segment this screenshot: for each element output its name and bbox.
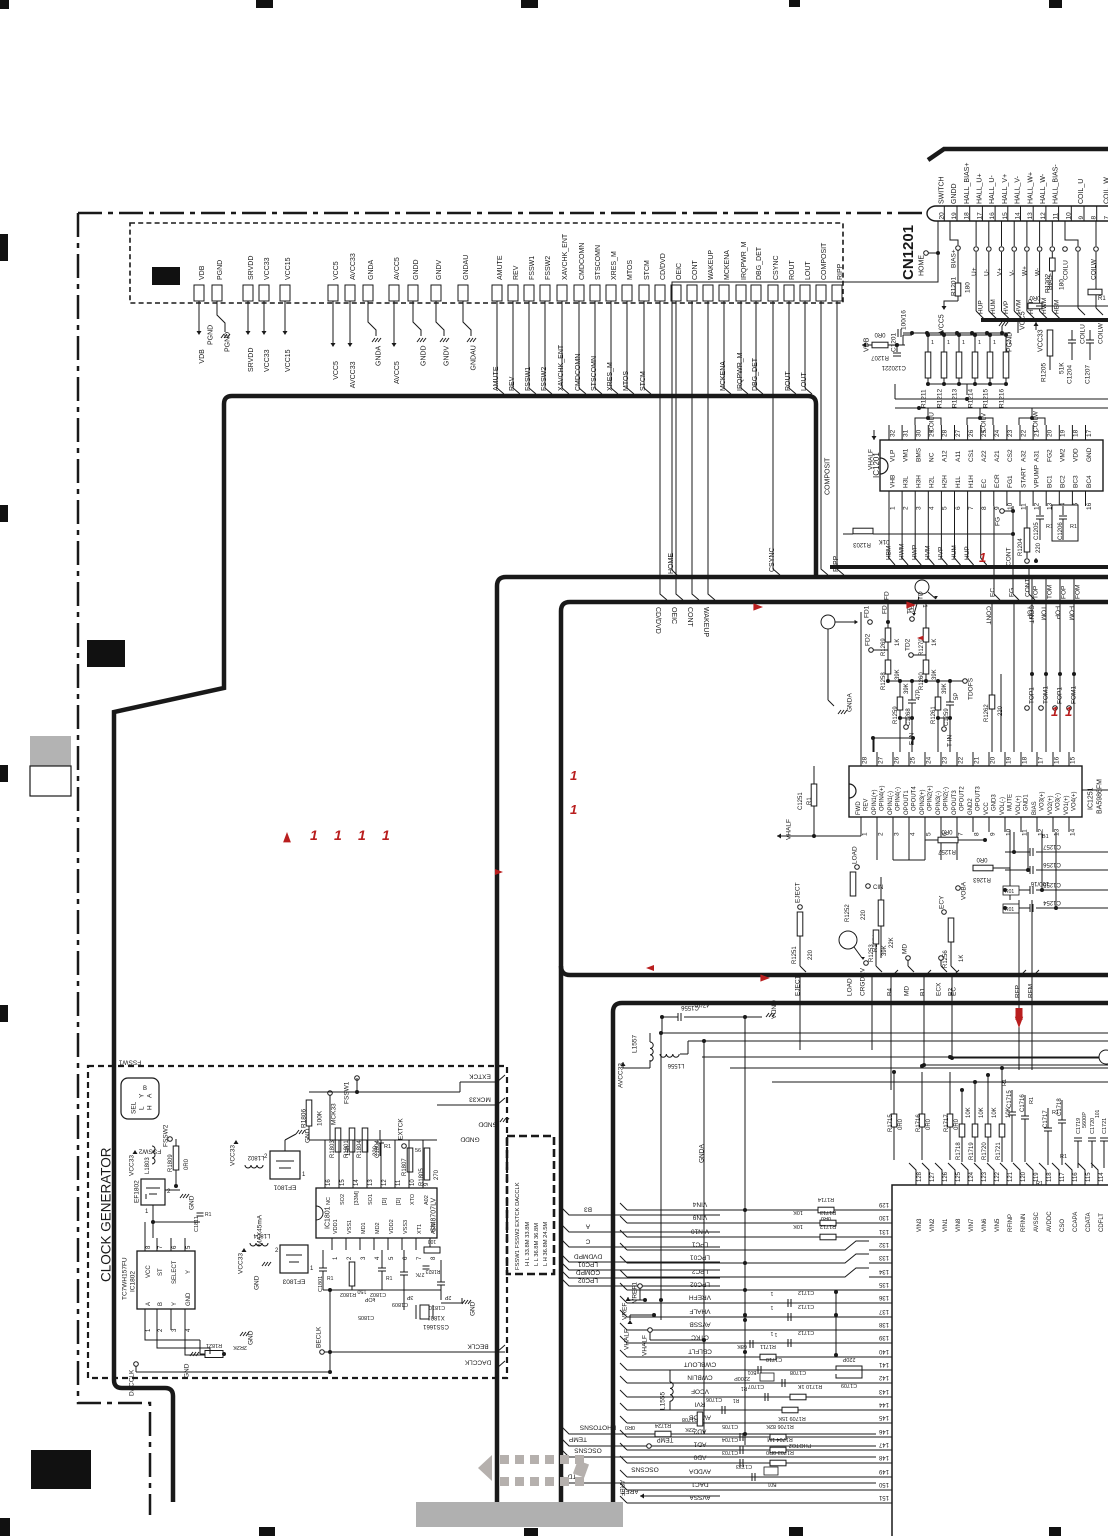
svg-text:VHB: VHB: [889, 475, 896, 488]
svg-text:SO1: SO1: [368, 1194, 374, 1205]
svg-text:R1216: R1216: [998, 388, 1005, 408]
svg-text:117: 117: [1060, 1172, 1066, 1182]
wire net A: [561, 1224, 613, 1232]
IC1251 pin 1: [860, 817, 862, 832]
svg-text:11: 11: [1021, 829, 1028, 836]
svg-text:R1717: R1717: [944, 1114, 950, 1132]
battery EF1803: [280, 1245, 308, 1273]
svg-text:R1706 82K: R1706 82K: [766, 1423, 794, 1429]
svg-text:C1206: C1206: [1058, 522, 1064, 540]
svg-text:1: 1: [931, 340, 934, 346]
svg-text:30: 30: [916, 429, 923, 437]
svg-text:18: 18: [1021, 756, 1028, 764]
resistor R1202 180: [1051, 221, 1053, 246]
svg-text:1: 1: [947, 340, 950, 346]
resistor 100: [424, 1247, 440, 1253]
op-amp IC1251 BA5986FM: [849, 766, 1082, 817]
IC1251 pin 17: [1036, 752, 1038, 766]
IC1701 pin 126: [935, 1163, 942, 1185]
svg-text:GND3: GND3: [992, 794, 998, 811]
op-amp IC1701 servo DSP: [892, 1185, 1108, 1536]
svg-text:VCC33: VCC33: [229, 1145, 236, 1166]
svg-text:R1203: R1203: [853, 541, 871, 547]
dashed interface box: [130, 223, 843, 303]
svg-text:9: 9: [1078, 216, 1085, 220]
svg-text:GNDD: GNDD: [413, 259, 420, 280]
resistor R1719 10K: [972, 1124, 978, 1137]
svg-text:0R0: 0R0: [941, 828, 953, 834]
svg-text:VM1: VM1: [902, 448, 909, 462]
svg-text:DACCLK: DACCLK: [128, 1369, 135, 1396]
wires from clock to right: [459, 1082, 461, 1092]
svg-text:HUM: HUM: [990, 299, 997, 314]
svg-text:5600P: 5600P: [1082, 1112, 1088, 1128]
svg-text:CSO: CSO: [1060, 1219, 1066, 1232]
wire heavy bus D outline: [613, 1003, 1108, 1502]
IC1701 pin 121: [1000, 1163, 1007, 1185]
svg-text:EF1803: EF1803: [282, 1278, 305, 1285]
svg-text:220: 220: [808, 949, 814, 960]
svg-text:16: 16: [989, 212, 996, 220]
svg-text:4: 4: [909, 832, 916, 836]
IC1201 pin 18 VDD: [1071, 425, 1073, 440]
svg-text:14: 14: [1069, 828, 1076, 836]
svg-text:1: 1: [861, 832, 868, 836]
node circle CRG: [839, 931, 857, 949]
svg-text:REV: REV: [509, 376, 516, 391]
wire net LPC01: [561, 1262, 613, 1270]
svg-text:[D]: [D]: [396, 1198, 402, 1206]
IC1701 pin 117: [1052, 1163, 1059, 1185]
svg-text:0R0: 0R0: [184, 1158, 190, 1170]
svg-text:C1809: C1809: [392, 1301, 408, 1307]
svg-text:COMPOSIT: COMPOSIT: [821, 242, 828, 280]
svg-text:6: 6: [955, 506, 962, 510]
svg-text:R1212: R1212: [936, 388, 943, 408]
svg-text:AVCC33: AVCC33: [350, 253, 357, 280]
resistor R1262 220: [991, 602, 993, 695]
svg-text:VIN4: VIN4: [692, 1201, 707, 1208]
IC1201 pin 10 FG1: [1006, 491, 1008, 506]
power VCC5: [942, 306, 947, 310]
labels BECLK DACCLK right: [497, 1345, 505, 1352]
wire H1H to bus: [967, 506, 969, 558]
svg-text:VHALF: VHALF: [623, 1329, 630, 1350]
svg-text:START: START: [1020, 467, 1027, 488]
node FD circle: [821, 615, 835, 629]
svg-text:VM2: VM2: [1060, 448, 1067, 462]
svg-text:1: 1: [770, 1304, 773, 1310]
svg-text:116: 116: [1073, 1172, 1079, 1182]
wire H3H to bus: [914, 506, 916, 558]
svg-text:126: 126: [943, 1171, 949, 1182]
svg-text:GNDA: GNDA: [368, 259, 375, 280]
svg-text:32: 32: [889, 429, 896, 437]
wire COILW: [1094, 247, 1099, 252]
svg-text:127: 127: [930, 1171, 936, 1182]
capacitor C1718: [1058, 1119, 1066, 1121]
svg-text:VHALF: VHALF: [641, 1335, 648, 1356]
svg-text:CRGDRV: CRGDRV: [859, 967, 866, 996]
svg-text:GNDAU: GNDAU: [463, 255, 470, 280]
svg-text:R1256: R1256: [943, 950, 949, 968]
switch SEL table: [121, 1078, 159, 1119]
svg-text:R1: R1: [386, 1276, 393, 1282]
svg-text:CWBLOUT: CWBLOUT: [684, 1361, 717, 1368]
svg-text:R1: R1: [327, 1276, 334, 1282]
svg-text:134: 134: [878, 1268, 889, 1274]
svg-text:RIPP: RIPP: [837, 263, 844, 280]
IC1251 pin 11: [1020, 817, 1022, 832]
svg-text:TOM1: TOM1: [1042, 686, 1049, 704]
capacitor C1802: [378, 1267, 386, 1269]
svg-text:C1204: C1204: [1066, 364, 1073, 384]
svg-text:ST: ST: [158, 1268, 164, 1276]
svg-text:COILV: COILV: [980, 412, 987, 432]
svg-text:VREFH: VREFH: [689, 1294, 711, 1301]
svg-text:120: 120: [1021, 1171, 1027, 1182]
svg-text:100/16: 100/16: [1030, 880, 1049, 886]
svg-text:BC4: BC4: [1086, 475, 1093, 488]
svg-text:A11: A11: [955, 451, 962, 462]
svg-text:1: 1: [770, 1290, 773, 1296]
svg-text:5: 5: [925, 832, 932, 836]
IC1251 pin 15: [1068, 752, 1070, 766]
svg-text:VSS1: VSS1: [347, 1220, 353, 1234]
wire heavy top-right: [928, 149, 1108, 160]
svg-text:R1: R1: [1070, 524, 1077, 530]
IC1251 pin 2: [876, 817, 878, 832]
wire rails box D: [660, 1032, 1108, 1034]
svg-text:PGND: PGND: [207, 325, 214, 345]
svg-text:0R0: 0R0: [1029, 294, 1041, 300]
svg-text:COMPD: COMPD: [576, 1269, 601, 1276]
svg-text:RFINP: RFINP: [1008, 1214, 1014, 1232]
svg-text:AVCC33: AVCC33: [350, 361, 357, 388]
capacitor C1204: [1068, 339, 1076, 341]
svg-text:STSCOMN: STSCOMN: [595, 245, 602, 280]
wire net LPC02: [561, 1278, 613, 1286]
svg-text:R1: R1: [384, 1144, 391, 1150]
outer dash-dot border frame: [78, 213, 922, 1515]
svg-text:FSSW2: FSSW2: [138, 1148, 161, 1155]
svg-text:STCM: STCM: [640, 371, 647, 391]
IC1701 pin 131 VIN10: [869, 1236, 876, 1238]
resistor R1717 0R0: [947, 1114, 953, 1127]
node EXTCK: [402, 1144, 407, 1149]
svg-text:180: 180: [964, 282, 971, 293]
svg-text:16: 16: [1053, 756, 1060, 764]
svg-text:CONT: CONT: [1024, 579, 1031, 597]
svg-text:20: 20: [989, 756, 996, 764]
svg-text:119: 119: [1034, 1172, 1040, 1182]
svg-text:39K: 39K: [882, 945, 888, 956]
svg-text:FWD: FWD: [856, 801, 862, 815]
svg-text:47P: 47P: [916, 689, 922, 700]
svg-text:22: 22: [957, 756, 964, 764]
svg-text:FG: FG: [994, 517, 1001, 526]
svg-text:R1263: R1263: [973, 876, 991, 882]
wires TOPTOMFOPFOM: [1031, 602, 1033, 752]
svg-text:OPOUT3: OPOUT3: [976, 786, 982, 811]
svg-text:26: 26: [893, 756, 900, 764]
svg-text:MD1: MD1: [361, 1222, 367, 1234]
svg-text:BA5986FM: BA5986FM: [1097, 779, 1104, 814]
wire COILW: [1019, 418, 1045, 425]
node MD: [906, 956, 911, 961]
svg-text:GND: GND: [253, 1275, 260, 1290]
svg-text:23: 23: [941, 756, 948, 764]
svg-text:TEMP: TEMP: [569, 1436, 587, 1443]
svg-text:DACCLK: DACCLK: [464, 1359, 491, 1366]
svg-text:1: 1: [774, 1331, 777, 1337]
svg-text:IC1801: IC1801: [325, 1206, 332, 1229]
svg-text:L1804: L1804: [253, 1232, 270, 1238]
svg-text:VCC33: VCC33: [237, 1253, 244, 1274]
svg-text:VLP: VLP: [889, 450, 896, 462]
IC1201 pin 1 VHB: [888, 491, 890, 506]
resistor R1252 220: [850, 872, 856, 896]
svg-text:12: 12: [1033, 502, 1040, 510]
resistor R1270 1K: [925, 602, 927, 628]
svg-text:01K: 01K: [879, 538, 890, 544]
svg-text:PGND: PGND: [217, 260, 224, 280]
svg-text:LOUT: LOUT: [801, 372, 808, 391]
svg-text:C1704: C1704: [722, 1436, 738, 1442]
svg-text:1: 1: [770, 1330, 773, 1336]
resistor R1716 0R0: [919, 1114, 925, 1127]
svg-text:VCC33: VCC33: [128, 1155, 135, 1176]
svg-text:VO2(+): VO2(+): [1048, 795, 1054, 815]
svg-text:LOUT: LOUT: [805, 261, 812, 280]
svg-text:R1803: R1803: [330, 1140, 336, 1158]
capacitors C1252-C1258 area: [1009, 830, 1011, 900]
node ECX EC: [939, 956, 944, 961]
IC1701 pin 140 CBLFLT: [869, 1356, 876, 1358]
svg-text:H: H: [146, 1105, 153, 1110]
node circle right edge: [1099, 1050, 1108, 1064]
svg-text:MAX45mA: MAX45mA: [256, 1214, 263, 1246]
svg-text:L: L: [138, 1106, 145, 1110]
svg-text:NC: NC: [929, 452, 936, 462]
svg-text:VCC5: VCC5: [938, 314, 945, 333]
svg-text:DBG_DET: DBG_DET: [752, 357, 759, 391]
svg-text:28: 28: [942, 429, 949, 437]
svg-text:C1712: C1712: [798, 1289, 814, 1295]
resistor R1202b 0R0: [1028, 303, 1042, 309]
svg-text:31: 31: [902, 429, 909, 437]
svg-text:17: 17: [976, 212, 983, 220]
svg-text:24: 24: [925, 756, 932, 764]
svg-text:R1809: R1809: [168, 1154, 174, 1172]
svg-text:ECX: ECX: [935, 982, 942, 996]
svg-text:TOP1: TOP1: [1028, 687, 1035, 704]
svg-text:R1823: R1823: [425, 1268, 440, 1274]
svg-text:R1253: R1253: [869, 944, 875, 962]
svg-text:PGND: PGND: [224, 332, 231, 352]
svg-text:B3: B3: [584, 1206, 592, 1213]
svg-text:24: 24: [994, 429, 1001, 437]
svg-text:GNDV: GNDV: [443, 345, 450, 366]
svg-text:A22: A22: [981, 450, 988, 462]
svg-text:C1716: C1716: [1020, 1094, 1026, 1112]
svg-text:FOP: FOP: [1054, 606, 1061, 619]
svg-text:MD: MD: [901, 944, 908, 954]
wires bus C to IC1251 pins: [860, 612, 862, 752]
svg-text:2: 2: [877, 832, 884, 836]
svg-text:39K: 39K: [932, 669, 938, 680]
svg-text:XAVCHK_ENT: XAVCHK_ENT: [558, 344, 565, 391]
svg-text:C1202: C1202: [888, 364, 906, 370]
svg-text:21: 21: [881, 364, 888, 370]
svg-text:1: 1: [979, 550, 986, 565]
svg-text:R1708: R1708: [682, 1416, 698, 1422]
svg-text:CBLFLT: CBLFLT: [688, 1348, 712, 1355]
svg-text:SO2: SO2: [340, 1194, 346, 1205]
svg-text:GNDA: GNDA: [375, 345, 382, 366]
svg-text:R1703 0R0: R1703 0R0: [766, 1449, 794, 1455]
svg-text:R1204: R1204: [1018, 538, 1024, 556]
wire COILV: [967, 418, 993, 425]
svg-text:SEL: SEL: [130, 1101, 137, 1114]
wire H2L to bus: [927, 506, 929, 558]
svg-text:REV: REV: [864, 799, 870, 811]
IC1251 pin 22: [956, 752, 958, 766]
IC1201 pin 21 A31: [1032, 425, 1034, 440]
wire rails above IC1201: [895, 398, 1108, 400]
svg-text:142: 142: [878, 1374, 889, 1380]
resistor R1809 0R0: [173, 1146, 179, 1170]
IC1701 pin 129 VIN4: [869, 1209, 876, 1211]
svg-text:AVSSB: AVSSB: [689, 1321, 710, 1328]
IC1251 pin 4: [908, 817, 910, 832]
svg-text:VSS3: VSS3: [403, 1220, 409, 1234]
wire VHB to bus: [888, 506, 890, 558]
svg-text:[33M]: [33M]: [354, 1191, 360, 1205]
svg-text:IC1251: IC1251: [1088, 787, 1095, 810]
IC1701 pin 146 AD2: [869, 1436, 876, 1438]
IC1251 pin 12: [1036, 817, 1038, 832]
svg-text:B01: B01: [747, 1369, 756, 1375]
IC1251 pin 24: [924, 752, 926, 766]
IC1251 pin 23: [940, 752, 942, 766]
IC1201 pin 17 GND: [1085, 425, 1087, 440]
svg-text:R1711: R1711: [760, 1343, 776, 1349]
svg-text:VCC15: VCC15: [285, 257, 292, 280]
svg-text:AREF: AREF: [618, 1480, 624, 1496]
svg-text:R1205: R1205: [1040, 362, 1047, 382]
IC1701 pin 147 AD1: [869, 1449, 876, 1451]
labels right edge of clock box: [497, 1075, 505, 1082]
svg-text:COILW: COILW: [1032, 410, 1039, 432]
svg-text:TEMP: TEMP: [657, 1436, 674, 1442]
svg-text:FSSW1: FSSW1: [529, 256, 536, 280]
svg-text:3: 3: [916, 506, 923, 510]
svg-text:R1720: R1720: [982, 1142, 988, 1160]
svg-text:143: 143: [878, 1388, 889, 1394]
svg-text:FG1: FG1: [1007, 475, 1014, 488]
bottom black box: [31, 1450, 91, 1489]
svg-text:FD: FD: [881, 605, 888, 614]
svg-text:CMDCOMN: CMDCOMN: [575, 354, 582, 391]
IC1201 pin 5 H2H: [940, 491, 942, 506]
svg-text:CN1201: CN1201: [900, 225, 917, 280]
svg-text:R1269: R1269: [881, 638, 887, 656]
grey redaction bar: [416, 1502, 623, 1527]
svg-text:220P: 220P: [842, 1356, 855, 1362]
svg-text:XTO: XTO: [410, 1193, 416, 1205]
svg-text:XRES_M: XRES_M: [611, 251, 618, 280]
svg-text:R1716: R1716: [916, 1114, 922, 1132]
capacitor R1823: [423, 1265, 430, 1267]
resistor R1201 180: [950, 221, 958, 245]
node circle mid: [915, 580, 929, 594]
resistor R1213: [957, 333, 961, 337]
svg-text:LOAD: LOAD: [851, 846, 858, 864]
IC1701 pin 133 LPC01: [869, 1262, 876, 1264]
svg-text:R1211: R1211: [920, 389, 927, 408]
svg-text:1K: 1K: [932, 639, 938, 646]
resistor R1708 22K: [697, 1412, 703, 1426]
IC1251 pin 8: [972, 817, 974, 832]
resistor R1805 270: [424, 1148, 430, 1180]
svg-text:VOBA: VOBA: [960, 881, 967, 900]
svg-text:VIN5: VIN5: [995, 1218, 1001, 1232]
svg-text:GND: GND: [183, 1363, 190, 1378]
svg-text:17: 17: [1037, 756, 1044, 764]
svg-text:B2: B2: [947, 988, 954, 996]
svg-text:132: 132: [878, 1241, 889, 1247]
svg-text:BECLK: BECLK: [467, 1343, 489, 1350]
ground GNDA: [838, 710, 841, 714]
IC1701 pin 134 LPC2: [869, 1276, 876, 1278]
IC1251 pin 6: [940, 817, 942, 832]
IC1701 pin 127: [922, 1163, 929, 1185]
svg-text:SRVDD: SRVDD: [248, 256, 255, 280]
svg-text:FSSW1: FSSW1: [525, 367, 532, 391]
capacitor C1254: [1029, 904, 1031, 912]
op-amp IC1201 driver: [880, 440, 1103, 491]
svg-text:CMDCOMN: CMDCOMN: [579, 243, 586, 280]
wire hall W-: [1039, 221, 1041, 246]
svg-text:R1724: R1724: [655, 1422, 671, 1428]
IC1701 pin 116: [1065, 1163, 1072, 1185]
red revision marks: [283, 832, 291, 842]
svg-text:VDD1: VDD1: [333, 1219, 339, 1234]
ground GND ef1803: [262, 1262, 265, 1266]
svg-text:H3H: H3H: [916, 475, 923, 488]
svg-text:TDOFS: TDOFS: [967, 677, 974, 700]
svg-text:SELECT: SELECT: [172, 1260, 178, 1284]
resistor R1211: [926, 333, 930, 337]
IC1701 pin 136 VREFH: [869, 1302, 876, 1304]
svg-text:HBM: HBM: [885, 546, 892, 560]
svg-text:L1803: L1803: [145, 1157, 151, 1174]
svg-text:1: 1: [570, 802, 577, 817]
resistor R1804 220: [362, 1128, 368, 1152]
svg-text:R1714: R1714: [818, 1196, 834, 1202]
svg-text:HVM: HVM: [925, 546, 932, 560]
svg-text:114: 114: [1099, 1172, 1105, 1182]
IC1201 pin 16 BC4: [1085, 491, 1087, 506]
svg-text:V+: V+: [996, 268, 1003, 276]
svg-text:FD1: FD1: [863, 605, 870, 618]
svg-text:OPIN2(+): OPIN2(+): [928, 785, 934, 811]
wire hall V+: [1001, 221, 1003, 246]
IC1201 pin 22 A32: [1019, 425, 1021, 440]
svg-text:8: 8: [981, 506, 988, 510]
svg-text:3P: 3P: [406, 1294, 413, 1300]
